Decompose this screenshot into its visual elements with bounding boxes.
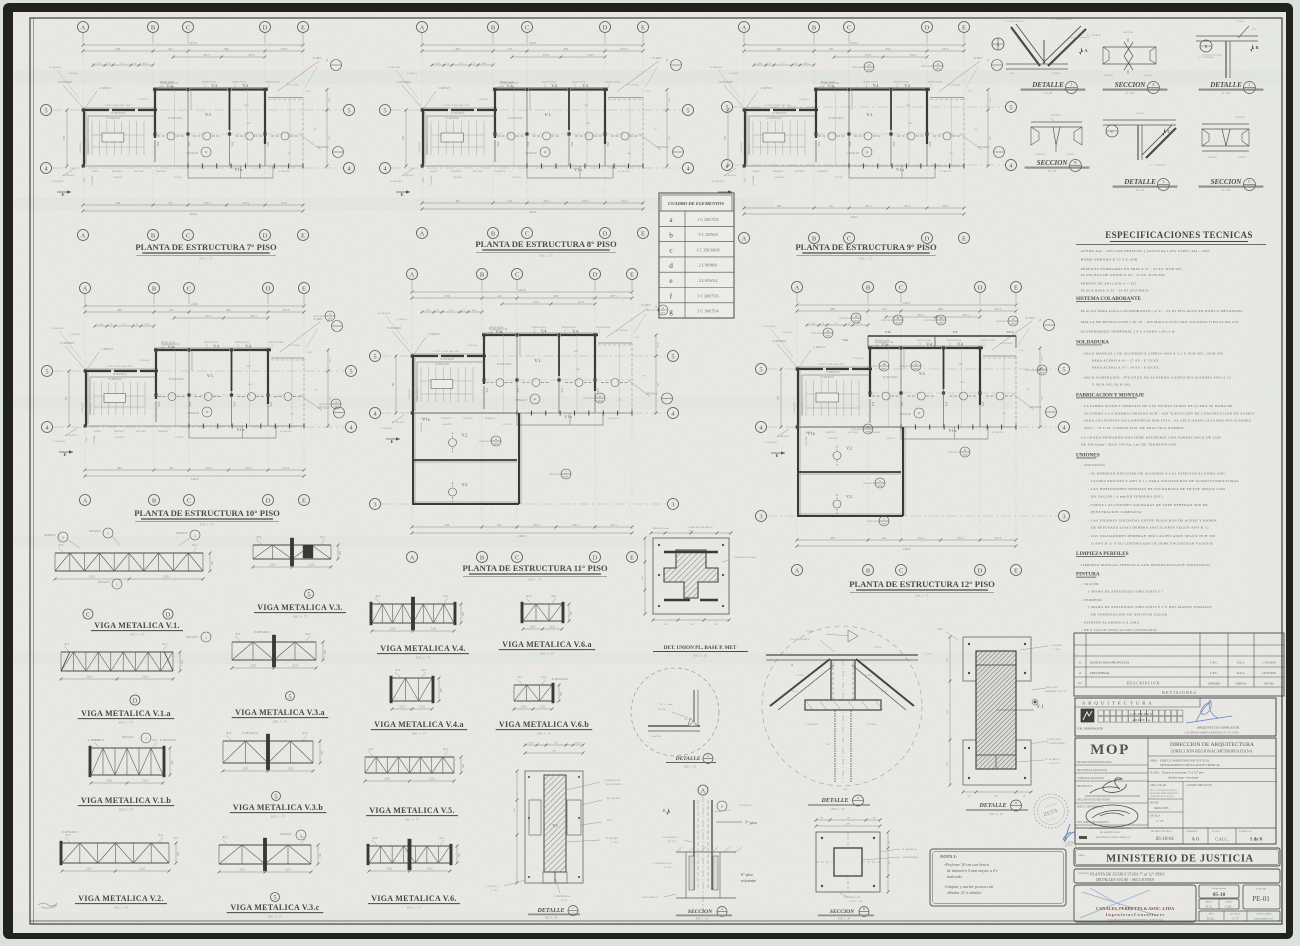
plan 8 piso: grid circles bottom xyxy=(417,228,649,239)
contiene box xyxy=(1074,869,1280,883)
plan 8 piso: scatter annotations xyxy=(388,67,658,179)
plan 10 piso: E arrow xyxy=(53,428,77,457)
plan 8 piso: top dimension lines xyxy=(421,41,645,67)
plan 12 piso: grid guide lines xyxy=(797,303,1016,538)
plan 11 piso: top dimension lines xyxy=(411,288,634,314)
detalle 7 tall column drawing xyxy=(486,743,622,903)
blue pen check xyxy=(1063,824,1075,842)
plan 12 piso: beam labels xyxy=(871,340,996,418)
detalle 1 (top right V braces) xyxy=(992,18,1101,95)
plan 9 piso: leader annotations xyxy=(719,81,844,184)
plan 12 piso: title xyxy=(849,579,995,598)
detalle circles plan 9 xyxy=(852,62,874,72)
detalle circles plan 11 xyxy=(646,305,668,315)
detalle 8 title xyxy=(966,800,1028,816)
truss V.6.a xyxy=(521,594,573,631)
plan 11 piso: beam axis circles xyxy=(486,379,629,387)
plan 12 piso: V.6 top band xyxy=(842,330,1016,348)
plan 10 piso: bottom dimension lines xyxy=(84,467,306,481)
plan 10 piso: stair hatch xyxy=(81,373,157,415)
cuadro de elementos table xyxy=(659,193,734,318)
plan 8 piso: right dim chain xyxy=(666,88,672,168)
seccion B plate drawing xyxy=(815,818,919,904)
plan 8 piso: E arrow xyxy=(390,168,414,197)
seccion A column drawing xyxy=(642,785,756,912)
plan 11 piso: grid guide lines xyxy=(412,290,632,525)
plan 7 piso: side grid circles xyxy=(41,105,355,174)
truss V.1.b xyxy=(60,831,180,873)
plan 10 piso: scatter annotations xyxy=(51,328,319,439)
plan 7 piso: structure walls xyxy=(82,88,303,179)
plan 12 piso: top dimension lines xyxy=(796,301,1018,327)
plan 7 piso: stair hatch xyxy=(79,112,156,155)
plan 11 piso: grid circles bottom xyxy=(407,552,638,563)
plan 9 piso: grid circles bottom xyxy=(739,233,970,244)
plan 12 piso: grid circles bottom xyxy=(792,565,1022,576)
pe-01 box xyxy=(1243,885,1280,909)
especificaciones tecnicas heading xyxy=(1076,230,1266,245)
plan 10 piso: title xyxy=(134,508,280,527)
truss V.1 top drawing xyxy=(54,543,215,589)
MOP title block xyxy=(1075,738,1276,844)
truss V.3.c xyxy=(218,830,323,874)
detalle circles plan 12 xyxy=(839,313,861,323)
detalle 5 title xyxy=(808,795,870,811)
plan 9 piso: bottom dimension lines xyxy=(743,205,966,219)
truss V.3.a xyxy=(231,631,328,670)
plan 10 piso: grid circles top xyxy=(80,283,310,305)
plan 7 piso: title xyxy=(135,242,277,261)
grid refs C D under truss V.1 xyxy=(83,609,173,619)
plan 7 piso: grid circles bottom xyxy=(78,230,309,241)
plan 8 piso: structure walls xyxy=(421,88,643,179)
plan 11 piso: E arrow xyxy=(380,415,404,444)
plan 12 piso: grid circles top xyxy=(792,282,1022,304)
detalle 8 column Y1 xyxy=(924,628,1067,798)
plan 9 piso: right detail leaders xyxy=(939,57,1005,158)
plan 9 piso: beam labels xyxy=(817,82,943,158)
grid ref D under xyxy=(130,695,140,705)
plan 10 piso: grid circles bottom xyxy=(80,495,310,506)
plan 12 piso: scatter annotations xyxy=(763,326,1031,440)
plan 10 piso: right detail leaders xyxy=(280,318,345,418)
plan 9 piso: scatter annotations xyxy=(710,67,979,179)
truss V.3 xyxy=(252,535,343,569)
detalle 7 title xyxy=(528,906,580,920)
plan 10 piso: structure walls xyxy=(84,348,304,438)
plan 8 piso: leader annotations xyxy=(397,81,523,184)
plan 11 piso: bottom dimension lines xyxy=(411,524,634,538)
truss V.6.b xyxy=(513,675,568,711)
nota 1 box xyxy=(930,849,1066,906)
plan 9 piso: beam axis circles xyxy=(818,132,961,140)
plan 8 piso: title xyxy=(475,239,617,258)
truss V.5 xyxy=(364,747,466,783)
plan 12 piso: structure walls xyxy=(796,346,1016,439)
plan 9 piso: structure walls xyxy=(743,88,964,179)
detalle 2 (top right T) xyxy=(1196,20,1263,95)
plan 7 piso: grid guide lines xyxy=(83,43,303,203)
plan 11 piso: scatter annotations xyxy=(378,313,647,426)
plan 12 piso: leader annotations xyxy=(772,340,898,445)
plan 7 piso: beam axis circles xyxy=(157,132,299,140)
plan 10 piso: right dim chain xyxy=(327,349,333,428)
bottom strip boxes xyxy=(1199,911,1280,921)
plan 11 piso: structure walls xyxy=(411,333,632,425)
plan 7 piso: beam labels xyxy=(156,82,281,158)
plan 12 piso: beam axis circles xyxy=(872,392,1014,400)
handwritten mark bottom left xyxy=(38,903,57,908)
truss V.4 xyxy=(370,594,465,633)
arquitectura header block xyxy=(1075,698,1276,736)
approval stamp circle xyxy=(1034,794,1068,828)
plan 12 piso: right dim chain xyxy=(1039,347,1045,429)
detalle 4 title xyxy=(666,754,716,769)
plan 8 piso: beam axis circles xyxy=(497,132,639,140)
plan 11 piso: stair hatch xyxy=(408,358,485,402)
plan 7 piso: right detail leaders xyxy=(277,57,344,158)
pencil annotation 2-3 xyxy=(1066,842,1076,848)
seccion B (2nd row) xyxy=(1025,114,1090,173)
plan 9 piso: top dimension lines xyxy=(743,41,966,67)
plan 9 piso: grid guide lines xyxy=(744,43,964,206)
plan 11 piso: right dim chain xyxy=(655,334,661,415)
plan 12 piso: side grid circles xyxy=(756,364,1070,522)
codigo proyecto boxes xyxy=(1199,885,1239,909)
plan 10 piso: side grid circles xyxy=(42,366,357,433)
revisiones table xyxy=(1074,633,1284,696)
plan 11 piso: beam labels xyxy=(485,327,611,404)
plan 11 piso: right detail leaders xyxy=(607,304,673,404)
truss V.3.b xyxy=(222,731,325,773)
det union pl base drawing xyxy=(641,526,756,626)
plan 7 piso: grid circles top xyxy=(78,22,309,44)
plan 8 piso: side grid circles xyxy=(380,105,694,174)
plan 12 piso: bottom dimension lines xyxy=(796,537,1018,551)
plan 10 piso: beam axis circles xyxy=(158,393,302,401)
detalle 3 (2nd row diag) xyxy=(1103,112,1177,192)
plan 9 piso: title xyxy=(795,242,937,261)
plan 8 piso: stair hatch xyxy=(418,112,496,155)
plan 8 piso: bottom dimension lines xyxy=(421,200,645,214)
plan 11 piso: lower V.2 extension xyxy=(412,413,521,504)
ministerio de justicia box xyxy=(1074,848,1280,866)
detalle circles plan 10 xyxy=(313,311,335,321)
seccion A (top right) xyxy=(1103,31,1168,95)
seccion B title xyxy=(818,907,874,921)
detalle 4 dashed circle xyxy=(631,668,719,756)
plan 7 piso: scatter annotations xyxy=(49,67,318,179)
plan 9 piso: right dim chain xyxy=(987,88,993,168)
truss V.1.a xyxy=(88,733,176,785)
truss V.4.a xyxy=(390,668,443,711)
plan 9 piso: grid circles top xyxy=(739,22,970,44)
plan 9 piso: stair hatch xyxy=(740,112,817,155)
detalle circles above truss V.1 xyxy=(44,528,200,548)
plan 9 piso: side grid circles xyxy=(722,102,1017,171)
plan 7 piso: E arrow xyxy=(51,168,75,197)
plan 10 piso: leader annotations xyxy=(60,342,184,444)
plan 9 piso: E arrow xyxy=(712,168,736,197)
plan 8 piso: grid guide lines xyxy=(422,43,643,201)
plan 7 piso: leader annotations xyxy=(58,81,183,184)
det union title xyxy=(653,645,748,658)
plan 12 piso: stair hatch xyxy=(793,371,871,416)
plan 10 piso: top dimension lines xyxy=(84,302,306,328)
plan 10 piso: beam labels xyxy=(157,342,284,417)
plan 7 piso: bottom dimension lines xyxy=(82,202,305,216)
plan 11 piso: title xyxy=(462,563,607,582)
seccion A title xyxy=(676,907,732,921)
detalle 5 big circle xyxy=(762,626,922,791)
plan 11 piso: leader annotations xyxy=(387,327,512,431)
plan 10 piso: grid guide lines xyxy=(85,304,304,468)
canales perretta box xyxy=(1074,885,1196,922)
truss V.6 xyxy=(367,836,461,873)
truss V.1 (second, trapezoid) xyxy=(60,632,212,681)
plan 7 piso: right dim chain xyxy=(326,88,332,168)
plan 12 piso: lower V.2 extension xyxy=(797,427,905,516)
especificaciones text block xyxy=(1076,249,1256,632)
seccion C (2nd row) xyxy=(1199,116,1264,192)
plan 12 piso: E arrow xyxy=(765,429,789,458)
plan 11 piso: grid circles top xyxy=(407,269,638,291)
plan 8 piso: right detail leaders xyxy=(617,57,684,158)
plan 8 piso: grid circles top xyxy=(417,22,649,44)
plan 12 piso: right detail leaders xyxy=(992,317,1057,418)
plan 8 piso: beam labels xyxy=(496,82,621,158)
plan 7 piso: top dimension lines xyxy=(82,41,305,67)
plan 11 piso: side grid circles xyxy=(370,351,679,510)
